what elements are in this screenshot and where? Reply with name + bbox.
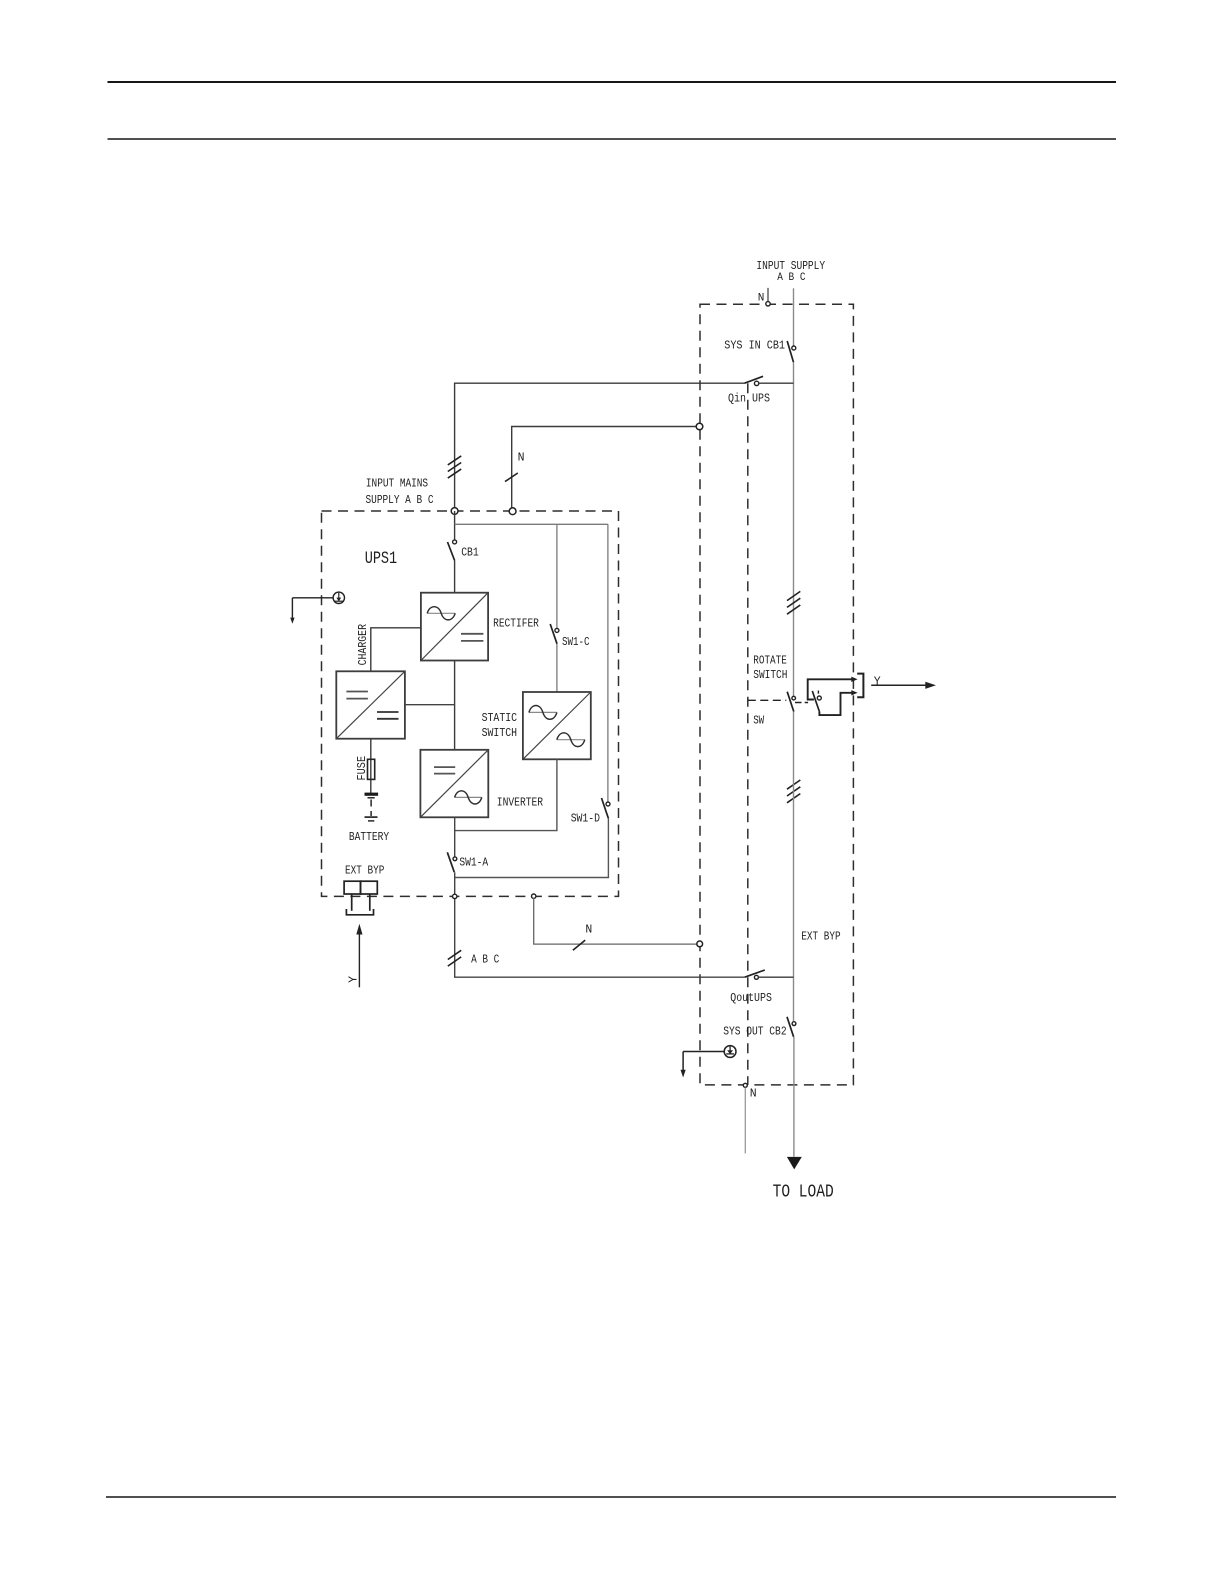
- ground symbol output: [681, 1046, 736, 1078]
- svg-text:Y: Y: [874, 676, 881, 689]
- wire charger feed: [371, 628, 421, 672]
- rotate switch coupling dashes: [795, 702, 802, 704]
- static switch sine lower: [557, 739, 585, 741]
- svg-text:INPUT MAINS: INPUT MAINS: [366, 476, 428, 490]
- svg-text:SUPPLY A B C: SUPPLY A B C: [366, 493, 434, 507]
- wire main bus upper: [793, 362, 795, 696]
- switch QoutUPS: [745, 970, 765, 977]
- system cabinet dashed box: [700, 304, 853, 1085]
- static switch sine upper: [529, 711, 557, 713]
- svg-text:UPS1: UPS1: [365, 549, 398, 569]
- node UPS1 output N: [532, 894, 536, 898]
- node N return on cabinet: [696, 423, 703, 430]
- svg-text:SW1-A: SW1-A: [459, 857, 488, 870]
- phase tick output N: [573, 940, 585, 950]
- page top rule 1: [108, 81, 1117, 83]
- node UPS1 N input: [509, 508, 516, 515]
- svg-text:CB1: CB1: [461, 546, 479, 560]
- wire to load: [793, 1037, 795, 1157]
- svg-text:SWITCH: SWITCH: [753, 669, 787, 682]
- node N terminal: [743, 1083, 747, 1087]
- svg-text:A B C: A B C: [471, 953, 499, 967]
- arrow rotate output: [871, 684, 926, 686]
- charger DC bars lower: [377, 711, 399, 713]
- wire input phase stub: [793, 288, 795, 346]
- breaker CB1: [453, 540, 457, 544]
- inverter DC bars: [434, 766, 455, 768]
- wire internal bypass tap: [455, 523, 608, 525]
- svg-text:Qin UPS: Qin UPS: [728, 392, 770, 406]
- svg-text:EXT BYP: EXT BYP: [345, 863, 384, 877]
- page bottom rule: [106, 1496, 1116, 1498]
- svg-text:INPUT SUPPLY: INPUT SUPPLY: [756, 259, 825, 273]
- wire N to load: [744, 1088, 746, 1154]
- svg-text:SW1-D: SW1-D: [571, 812, 600, 825]
- switch SW pole 1: [787, 692, 794, 712]
- battery: [365, 794, 379, 821]
- svg-text:SWITCH: SWITCH: [482, 727, 517, 740]
- breaker SYS OUT CB2: [792, 1022, 796, 1026]
- switch SW pole 2: [812, 691, 819, 712]
- node N input: [766, 302, 770, 306]
- wire mains N return: [512, 427, 697, 512]
- svg-text:N: N: [758, 292, 765, 304]
- breaker SYS IN CB1: [787, 341, 793, 362]
- wire UPS1 input drop: [454, 511, 456, 540]
- svg-text:SW1-C: SW1-C: [562, 636, 590, 649]
- wire input N stub: [767, 288, 769, 302]
- rotate switch lower loop: [819, 693, 851, 715]
- svg-text:STATIC: STATIC: [482, 712, 518, 725]
- rectifier box: [421, 593, 488, 661]
- static switch box: [523, 692, 591, 759]
- wire static switch output: [455, 759, 557, 830]
- wire DC bus: [454, 661, 456, 750]
- svg-text:RECTIFER: RECTIFER: [493, 616, 539, 630]
- svg-text:N: N: [585, 924, 592, 937]
- svg-text:QoutUPS: QoutUPS: [730, 991, 772, 1005]
- wire SW1-D return: [455, 818, 609, 877]
- svg-text:N: N: [750, 1088, 757, 1101]
- svg-text:ROTATE: ROTATE: [753, 654, 787, 667]
- dashed stub to rotate switch: [748, 699, 787, 701]
- wire charger output: [405, 704, 455, 706]
- fuse: [368, 759, 375, 779]
- UPS1 dashed box: [322, 511, 619, 896]
- wire mains feeder to UPS1: [455, 383, 745, 511]
- wire to SW1-C: [556, 524, 558, 628]
- svg-text:Y: Y: [348, 976, 361, 983]
- svg-text:INVERTER: INVERTER: [497, 795, 543, 809]
- svg-text:TO LOAD: TO LOAD: [773, 1182, 834, 1203]
- wire inverter output: [454, 817, 456, 857]
- phase ticks main bus upper: [787, 591, 800, 614]
- wire UPS1 output N: [534, 898, 697, 944]
- switch SW1-D: [606, 802, 610, 806]
- svg-text:EXT BYP: EXT BYP: [801, 929, 840, 943]
- rectifier DC bars: [461, 633, 483, 635]
- rectifier AC sine symbol: [427, 612, 455, 614]
- arrow to ext byp: [358, 934, 360, 988]
- ext byp connector blocks: [344, 881, 377, 915]
- node UPS1 output phase: [453, 894, 457, 898]
- inverter box: [420, 750, 488, 818]
- svg-text:BATTERY: BATTERY: [349, 830, 389, 844]
- wire to SW1-D: [607, 524, 609, 802]
- svg-text:SW: SW: [753, 715, 764, 728]
- ground symbol UPS1: [290, 592, 344, 624]
- inverter AC sine symbol: [455, 796, 482, 798]
- phase ticks main bus lower: [787, 780, 800, 803]
- dashed divider Qin/UPS: [747, 383, 749, 1085]
- svg-text:SYS IN CB1: SYS IN CB1: [724, 339, 785, 353]
- svg-text:SYS OUT CB2: SYS OUT CB2: [723, 1024, 786, 1038]
- phase ticks UPS output: [448, 950, 461, 966]
- node UPS1 phase input: [451, 508, 458, 515]
- wire charger to battery: [370, 739, 372, 793]
- charger box: [336, 671, 405, 738]
- svg-text:N: N: [518, 452, 525, 465]
- svg-text:CHARGER: CHARGER: [356, 624, 370, 665]
- phase ticks mains input: [448, 456, 461, 478]
- charger DC bars upper: [346, 691, 368, 693]
- rotate switch output bracket: [857, 674, 863, 698]
- svg-text:A B C: A B C: [777, 272, 806, 284]
- switch Qin UPS: [745, 376, 764, 383]
- switch SW1-A: [453, 857, 457, 861]
- phase tick N mains: [505, 473, 518, 482]
- rotate switch upper loop: [808, 679, 852, 699]
- wire UPS1 output ABC: [455, 872, 745, 977]
- node output N on cabinet: [697, 941, 703, 947]
- switch SW1-C: [555, 628, 559, 632]
- page top rule 2: [108, 138, 1117, 140]
- wire main bus lower: [793, 712, 795, 1022]
- arrow to load: [787, 1157, 802, 1170]
